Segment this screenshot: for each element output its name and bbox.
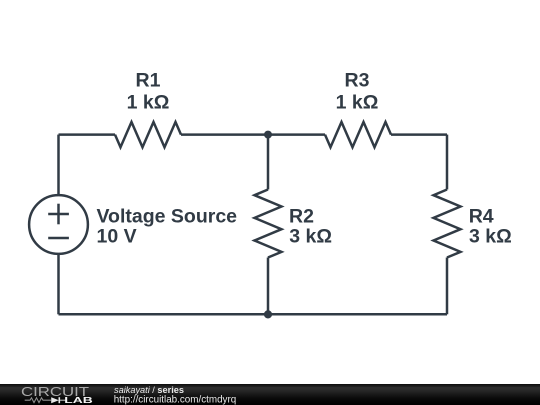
wire node B to R3 — [268, 133, 325, 136]
wire R4 to bottom — [446, 258, 449, 315]
wire node B to R2 — [267, 135, 270, 190]
wire R3 to top-right corner — [391, 133, 447, 136]
wire left vertical top (to voltage source) — [57, 135, 60, 194]
logo resistor squiggle — [25, 398, 51, 403]
svg-text:LAB: LAB — [64, 395, 93, 405]
resistor R4 — [434, 190, 461, 258]
resistor R3 — [325, 122, 391, 147]
voltage source V1 body — [29, 195, 88, 254]
svg-text:saikayati / series: saikayati / series — [114, 385, 184, 395]
junction node B (top) — [264, 131, 272, 139]
logo diode symbol — [51, 397, 59, 403]
resistor R2 — [255, 190, 282, 258]
svg-text:http://circuitlab.com/ctmdyrq: http://circuitlab.com/ctmdyrq — [114, 395, 237, 405]
voltage source minus sign — [48, 237, 69, 240]
junction node C (bottom) — [264, 310, 272, 318]
wire R1 to node B — [181, 133, 268, 136]
wire top-left horizontal (node A to R1) — [59, 133, 116, 136]
footer bar — [0, 384, 540, 405]
wire bottom horizontal — [59, 313, 448, 316]
wire left vertical bottom — [57, 255, 60, 314]
wire right vertical top — [446, 135, 449, 190]
wire R2 to bottom node — [267, 258, 270, 315]
voltage source plus sign — [48, 213, 69, 216]
logo lead into LAB — [60, 399, 67, 401]
resistor R1 — [115, 122, 181, 147]
